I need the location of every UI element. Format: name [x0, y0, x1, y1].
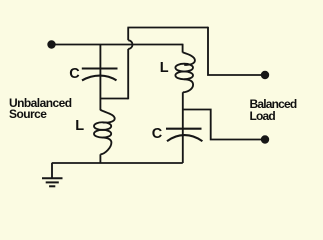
- capacitor C1 curved bottom plate: [82, 76, 117, 81]
- wire: corner down from input wire into inductor L2 top lead: [182, 44, 184, 53]
- wire: junction down into inductor L1 top lead: [99, 99, 101, 111]
- label L2: [160, 61, 169, 75]
- capacitor C1 top plate: [82, 67, 118, 69]
- label C1: [69, 67, 79, 81]
- label: Balanced Load: [250, 99, 297, 122]
- wire: ground rail: [52, 162, 183, 164]
- label: Unbalanced Source: [9, 98, 72, 121]
- label L1: [75, 119, 84, 133]
- wire: L2 bottom lead down through junction to capacitor C2: [182, 92, 184, 163]
- wire: junction on input wire down to capacitor C1: [99, 45, 101, 99]
- wire: junction to balanced load lower terminal: [183, 110, 262, 140]
- wire hop over input wire: [128, 40, 132, 49]
- inductor L2 (top right) coil: [183, 52, 195, 65]
- wire: L1 bottom lead to ground rail: [99, 154, 101, 163]
- wire: junction right to crossover vertical: [100, 98, 128, 100]
- node: balanced load lower terminal dot: [261, 135, 269, 143]
- inductor L1 (bottom left) coil: [100, 110, 114, 123]
- wire: input horizontal from source dot to right inductor corner: [54, 44, 183, 46]
- wire: right vertical down to balanced load upper terminal: [208, 27, 262, 75]
- ground symbol: [51, 163, 53, 178]
- label C2: [152, 127, 162, 141]
- node: unbalanced source terminal dot: [47, 40, 55, 48]
- wire: crossover vertical upper segment and top wire to right: [127, 28, 208, 41]
- node: balanced load upper terminal dot: [261, 71, 269, 79]
- capacitor C2 curved bottom plate: [167, 135, 202, 141]
- wire: crossover vertical lower segment: [127, 49, 129, 99]
- capacitor C2 top plate: [166, 128, 202, 130]
